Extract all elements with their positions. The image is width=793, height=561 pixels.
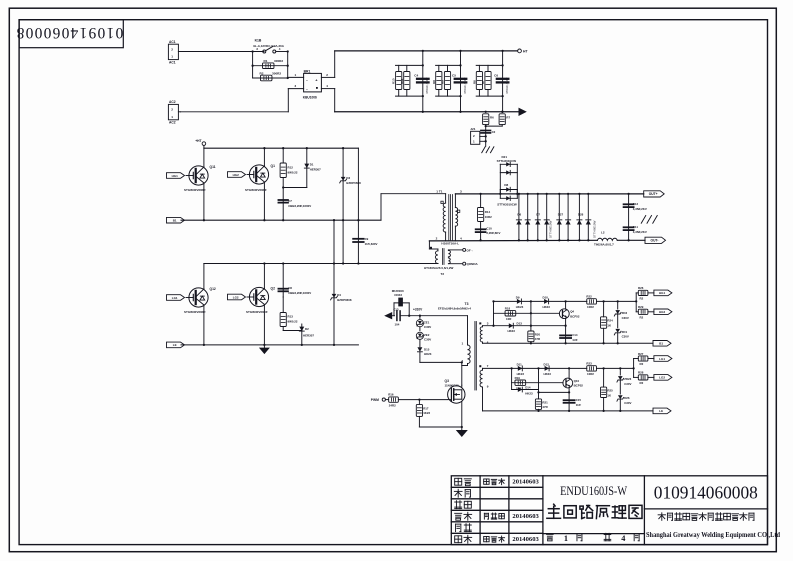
wire node to bridge pin1: [288, 76, 304, 78]
svg-text:AC1: AC1: [169, 60, 176, 64]
page row 第 1 页 共 4 页: [547, 533, 640, 543]
svg-text:C2: C2: [492, 130, 496, 134]
title 主回路原理图 (main circuit schematic): [547, 504, 642, 518]
junction ZD23 top: [619, 367, 621, 369]
junction D6b bottom: [527, 239, 529, 241]
svg-text:1U5,630V: 1U5,630V: [365, 242, 378, 246]
title row label audit 审核: [455, 512, 472, 520]
svg-text:20140603: 20140603: [512, 479, 539, 486]
svg-text:LG2: LG2: [659, 376, 665, 380]
wire R10 bottom stub: [398, 90, 400, 97]
wire right branch vertical: [287, 52, 289, 79]
svg-text:D27: D27: [558, 213, 564, 217]
junction R25 top: [602, 367, 604, 369]
svg-text:STTH6010W: STTH6010W: [549, 220, 553, 238]
svg-text:R19: R19: [515, 376, 521, 380]
svg-text:D11: D11: [517, 362, 523, 366]
junction return rail at RS2: [501, 111, 503, 113]
svg-text:R2: R2: [640, 381, 644, 385]
junction D4 rail: [333, 344, 335, 346]
zener ZD23 C30V: [617, 368, 632, 394]
resistor R7 bleeder: [481, 72, 491, 90]
junction +HT at C6: [501, 50, 503, 52]
svg-text:BZDP0608: BZDP0608: [337, 298, 352, 302]
svg-text:Q2: Q2: [271, 287, 276, 291]
junction R21 rail: [537, 410, 539, 412]
wire bridge top rail: [204, 147, 359, 149]
wire Q12 emitter: [203, 306, 205, 345]
svg-text:300R2: 300R2: [274, 59, 283, 63]
wire mid rail jog up: [380, 194, 382, 221]
wire mid rail to T1 pin1: [381, 193, 446, 195]
capacitor C12 3,3NF,2KV: [624, 194, 647, 240]
wire R10 top stub: [398, 65, 400, 71]
rectifier diode pair D6 STTH6010W: [516, 194, 530, 240]
svg-text:2: 2: [171, 108, 173, 112]
capacitor C7 CBB2,2NF,1600V: [278, 188, 311, 221]
wire C5 cluster top bus: [436, 64, 461, 66]
relay contact K1B 9L-A,12VDC,0.9A,30A: [253, 39, 285, 54]
junction node K1B right: [287, 50, 289, 52]
junction gate node: [418, 398, 420, 400]
wire R14 top stub: [480, 194, 482, 208]
junction Q12 emitter rail: [203, 344, 205, 346]
title row label standard 标化: [456, 524, 472, 532]
svg-text:20140603: 20140603: [512, 536, 539, 543]
svg-text:AC2: AC2: [169, 121, 176, 125]
junction C11 bottom: [627, 239, 629, 241]
svg-text:C30V: C30V: [624, 401, 631, 405]
svg-text:470UF,450V: 470UF,450V: [505, 77, 509, 94]
svg-text:D6: D6: [517, 213, 521, 217]
junction C4 bottom bus: [422, 95, 424, 97]
junction D3 rail: [342, 219, 344, 221]
wire HG2 to Q1 gate: [247, 174, 250, 176]
svg-text:C14: C14: [572, 333, 578, 337]
svg-text:LE: LE: [173, 343, 177, 347]
svg-text:BCP52: BCP52: [570, 314, 580, 318]
junction D2 rail: [301, 344, 303, 346]
wire AC1 to relay contact: [181, 51, 265, 53]
wire C6 vertical: [502, 51, 504, 112]
resistor R19 10R: [515, 376, 526, 390]
junction return at C4: [422, 111, 424, 113]
connector LE (lower emitter): [167, 342, 185, 348]
wire Q2 collector: [263, 264, 265, 289]
svg-text:HER307: HER307: [303, 334, 314, 338]
svg-text:R23: R23: [586, 362, 592, 366]
name Liu Jizhou 刘纪周: [484, 513, 504, 519]
wire Q3 drain: [461, 385, 463, 387]
resistor R20 47R: [528, 331, 541, 342]
capacitor C8 CBB2,2NF,1600V: [278, 264, 311, 298]
junction LG branch: [632, 367, 634, 369]
resistor R16 24R2: [388, 393, 398, 408]
diode D15 HK23: [417, 347, 431, 362]
IGBT Q11 STGW30V60DF: [184, 165, 216, 192]
capacitor C9 1U5,630V: [353, 148, 377, 263]
wire output bottom to OUT-: [617, 239, 645, 241]
company 上海广为焊接电源有限公司: [658, 513, 754, 521]
svg-text:3,3NF,2KV: 3,3NF,2KV: [633, 230, 647, 234]
title block outline: [451, 476, 767, 545]
svg-text:STTH6010W: STTH6010W: [593, 220, 597, 238]
junction J21 pin1: [485, 135, 487, 137]
svg-text:T6026A,60/1,7: T6026A,60/1,7: [594, 243, 614, 247]
svg-text:4: 4: [460, 236, 462, 240]
resistor R8 bleeder: [432, 72, 442, 90]
svg-text:1UF: 1UF: [576, 403, 582, 407]
resistor R28: [638, 371, 648, 385]
svg-text:HG2: HG2: [659, 310, 666, 314]
junction +HT at C5: [459, 50, 461, 52]
svg-text:+310V: +310V: [413, 308, 423, 312]
wire R20 bottom: [530, 342, 532, 344]
connector HG1 (output): [654, 290, 672, 296]
title row label proof 校对: [455, 501, 472, 509]
svg-text:D1: D1: [310, 163, 314, 167]
junction R24 rail: [602, 342, 604, 344]
junction C6 top bus: [501, 64, 503, 66]
svg-text:2: 2: [171, 47, 173, 51]
wire AC2 run: [181, 111, 289, 113]
junction lower rail C8: [282, 262, 284, 264]
wire ch1 riser: [493, 301, 495, 325]
svg-text:C5: C5: [452, 74, 456, 78]
wire ch1 top row: [494, 300, 587, 302]
junction top rail Q1: [263, 147, 265, 149]
svg-text:9W0.22: 9W0.22: [288, 319, 298, 323]
resistor R17 1K22: [416, 400, 430, 417]
dual diode D8 STTH3010CW: [497, 183, 517, 207]
junction ZD1 rail: [617, 342, 619, 344]
svg-text:MUR160: MUR160: [392, 289, 404, 293]
junction C5 bottom bus: [459, 95, 461, 97]
junction R25 rail: [602, 410, 604, 412]
node +HT (bridge supply): [195, 139, 206, 148]
svg-text:10R2: 10R2: [485, 215, 492, 219]
svg-text:R20: R20: [535, 332, 541, 336]
wire R7 top stub: [487, 65, 489, 71]
wire pin3 row: [483, 325, 566, 327]
wire PWM to R16: [385, 399, 388, 401]
svg-text:HK23: HK23: [424, 352, 432, 356]
capacitor C14 1UF: [560, 326, 578, 344]
svg-text:Q10: Q10: [574, 379, 580, 383]
electrolytic capacitor C4 470UF,450V: [414, 74, 429, 95]
wire R12 bottom: [282, 178, 284, 188]
svg-text:STTH3010CW: STTH3010CW: [497, 203, 517, 207]
svg-text:LE: LE: [659, 409, 663, 413]
junction ZD3 top: [617, 300, 619, 302]
junction C5 top bus: [459, 64, 461, 66]
junction T3 primary bottom: [461, 361, 463, 363]
svg-text:OF→: OF→: [467, 249, 474, 253]
wire mid link 2: [342, 220, 344, 263]
connector LG1 (lower gate 1): [167, 295, 185, 301]
junction Q2 emitter rail: [263, 344, 265, 346]
junction D7b top: [546, 193, 548, 195]
wire mid link 1: [333, 220, 335, 263]
junction top rail D3: [342, 147, 344, 149]
inductor L2 T6026A,60/1,7: [594, 230, 617, 246]
wire T2 feed drop: [428, 241, 430, 249]
svg-text:D7: D7: [536, 213, 540, 217]
wire R6 top stub: [478, 65, 480, 71]
diode D2 HER307: [299, 324, 314, 345]
wire AC2 riser to bridge pin3: [287, 89, 289, 112]
svg-text:010914060008: 010914060008: [15, 24, 123, 41]
svg-text:R10: R10: [392, 78, 396, 84]
svg-text:CD23: CD23: [394, 293, 402, 297]
svg-text:R2: R2: [640, 316, 644, 320]
connector LG1 (output): [654, 356, 672, 362]
chassis ground (output): [641, 216, 657, 224]
wire clamp bottom: [420, 361, 462, 363]
svg-text:D26: D26: [624, 396, 630, 400]
capacitor C11 3,3NF,2KV: [624, 225, 647, 234]
wire +310V to T3: [420, 315, 468, 317]
svg-text:2: 2: [436, 236, 438, 240]
svg-text:T2: T2: [441, 272, 445, 276]
wire R8 top stub: [438, 65, 440, 71]
svg-text:C6: C6: [494, 74, 498, 78]
connector LE (output): [653, 408, 671, 414]
junction C9 lower rail: [357, 262, 359, 264]
electrolytic capacitor C6 470UF,450V: [494, 74, 509, 95]
svg-text:1: 1: [564, 534, 568, 543]
wire RS1 down: [485, 125, 487, 147]
diode D11 HK23: [517, 362, 525, 376]
svg-text:11N90C20: 11N90C20: [445, 384, 460, 388]
svg-text:BR1: BR1: [304, 69, 311, 73]
zener ZE2 C30V: [416, 332, 431, 347]
junction pin3 node: [492, 325, 494, 327]
junction R1 right: [287, 65, 289, 67]
svg-text:010914060008: 010914060008: [654, 482, 758, 502]
wire R2 row: [253, 77, 288, 79]
svg-text:R17: R17: [423, 406, 429, 410]
svg-text:AC1: AC1: [169, 40, 176, 44]
transformer T1 H160716A-L: [436, 190, 462, 246]
junction C4 top bus: [422, 64, 424, 66]
title row label draw 绘制: [454, 489, 470, 497]
title row label approve 批准: [455, 535, 472, 543]
junction R18 mid: [530, 312, 532, 314]
wire C6 cluster top bus: [476, 64, 502, 66]
svg-text:PWM: PWM: [371, 398, 379, 402]
svg-text:C15: C15: [576, 398, 582, 402]
svg-text:BZDP0608: BZDP0608: [346, 181, 361, 185]
wire ch2 emitter row: [539, 391, 570, 393]
junction C7 rail: [282, 219, 284, 221]
svg-text:47R: 47R: [542, 405, 548, 409]
wire lower mid rail: [204, 263, 438, 265]
svg-text:D8: D8: [504, 183, 508, 187]
junction D stack left rail: [499, 193, 501, 195]
wire Q12 collector: [203, 264, 205, 290]
wire ch1 mid vertical: [530, 301, 532, 331]
svg-text:C30V: C30V: [624, 382, 631, 386]
resistor RS1: [483, 114, 494, 125]
connector LG2 (output): [654, 375, 672, 381]
transformer T3 EF25d,N84,9x9x5/N92+4: [438, 302, 489, 411]
svg-text:10R: 10R: [506, 317, 512, 321]
svg-text:R6: R6: [490, 116, 494, 120]
junction Q11 emitter rail: [203, 219, 205, 221]
resistor R22 10R2: [586, 295, 596, 310]
svg-text:ZD1: ZD1: [622, 330, 628, 334]
svg-text:ZD3: ZD3: [622, 311, 628, 315]
capacitor C2: [481, 130, 496, 134]
wire Q11 emitter: [203, 184, 205, 220]
wire R12-D1 join: [283, 187, 307, 189]
junction C6 bottom bus: [501, 95, 503, 97]
resistor R29: [638, 305, 648, 319]
svg-text:3,3NF,2KV: 3,3NF,2KV: [633, 207, 647, 211]
junction ch2 mid: [537, 367, 539, 369]
svg-text:D15: D15: [424, 347, 430, 351]
resistor RS2: [499, 114, 510, 125]
junction link2 bottom: [342, 262, 344, 264]
wire LG2 branch stub: [634, 376, 639, 378]
wire C5 vertical: [460, 51, 462, 112]
junction link1 top: [333, 219, 335, 221]
junction C12 top: [627, 193, 629, 195]
svg-text:R6: R6: [472, 80, 476, 84]
wire R21 bottom: [538, 409, 540, 411]
junction return rail at RS1: [485, 111, 487, 113]
connector HG1 (upper gate 1): [167, 173, 185, 179]
resistor R25 1K: [601, 368, 614, 411]
svg-text:H160716A-L: H160716A-L: [441, 242, 459, 246]
wire HG1 to Q11 gate: [186, 175, 189, 177]
junction C10 bottom: [479, 239, 481, 241]
svg-text:ZE2: ZE2: [424, 333, 430, 337]
resistor R23 10R2: [586, 362, 596, 377]
junction node K1B left: [251, 50, 253, 52]
wire left branch vertical: [252, 52, 254, 79]
chassis ground (soft start): [482, 147, 494, 153]
svg-text:D28: D28: [578, 213, 584, 217]
svg-text:HK23: HK23: [516, 305, 524, 309]
svg-text:C30V: C30V: [424, 338, 431, 342]
svg-text:C30V: C30V: [424, 325, 431, 329]
wire into bridge pin3: [288, 88, 303, 90]
junction J21 pin2: [485, 140, 487, 142]
connector HG2 (output): [654, 309, 672, 315]
svg-text:KBU1006: KBU1006: [303, 96, 317, 100]
wire Q3 source: [461, 402, 463, 431]
svg-text:R8: R8: [432, 80, 436, 84]
svg-text:+HT: +HT: [195, 139, 201, 143]
wire R16 to gate: [398, 399, 447, 401]
junction D23 right: [408, 315, 410, 317]
wire R13 to D2: [283, 330, 302, 332]
svg-text:47R: 47R: [535, 337, 541, 341]
junction D6a bottom: [518, 239, 520, 241]
svg-text:OUT-: OUT-: [651, 239, 659, 243]
svg-text:R25: R25: [607, 389, 613, 393]
junction D7a top: [537, 193, 539, 195]
svg-text:1: 1: [171, 55, 173, 59]
resistor R14 10R2: [478, 208, 493, 222]
svg-text:OUT+: OUT+: [649, 192, 658, 196]
wire ch2 drive row: [597, 367, 634, 369]
svg-text:R9: R9: [441, 80, 445, 84]
capacitor C15 1UF: [564, 392, 582, 411]
diode D1 HER307: [304, 148, 321, 187]
wire contact to node: [276, 51, 288, 53]
junction D7a bottom: [537, 239, 539, 241]
junction C14 rail: [564, 342, 566, 344]
wire R9 bottom stub: [447, 90, 449, 97]
svg-text:R21: R21: [542, 400, 548, 404]
junction D28a top: [578, 193, 580, 195]
svg-text:HK23: HK23: [525, 392, 533, 396]
transistor Q10 BCP52: [563, 368, 583, 392]
junction Q2 collector rail: [263, 262, 265, 264]
svg-text:C30V: C30V: [622, 335, 629, 339]
connector B1 (upper emitter): [167, 217, 185, 223]
wire R6 bottom stub: [478, 90, 480, 97]
svg-text:R22: R22: [586, 295, 592, 299]
svg-text:STGW30V60DF: STGW30V60DF: [184, 310, 206, 314]
svg-text:R2: R2: [640, 297, 644, 301]
svg-text:R12: R12: [288, 166, 294, 170]
junction snubber mid: [282, 186, 284, 188]
wire C6 cluster bottom bus: [476, 95, 502, 97]
junction D stack right rail: [516, 193, 518, 195]
connector PWM: [371, 398, 386, 402]
svg-text:STGW30V60DF: STGW30V60DF: [245, 188, 267, 192]
svg-text:R16: R16: [388, 393, 394, 397]
junction source gnd: [461, 426, 463, 428]
svg-text:HT160SA26 0,6/1,2W: HT160SA26 0,6/1,2W: [424, 266, 454, 270]
svg-text:4: 4: [621, 534, 625, 543]
svg-text:K1B: K1B: [255, 39, 262, 43]
svg-text:Q11: Q11: [210, 165, 216, 169]
svg-text:AC2: AC2: [169, 100, 176, 104]
svg-text:C9: C9: [365, 237, 369, 241]
IGBT Q1 STGW30V60DF: [245, 164, 275, 192]
resistor R24 1K: [601, 301, 614, 343]
junction ch1 top left: [492, 300, 494, 302]
wire HG2 branch down: [635, 301, 637, 311]
zener ZD3 C30V: [614, 301, 629, 327]
junction R24 top: [602, 300, 604, 302]
connector J21: [470, 127, 485, 144]
svg-text:D9: D9: [516, 295, 520, 299]
svg-text:B1: B1: [659, 342, 663, 346]
svg-text:Q4: Q4: [570, 310, 574, 314]
svg-text:R26: R26: [638, 286, 644, 290]
svg-text:R14: R14: [485, 210, 491, 214]
capacitor C13 104: [393, 307, 420, 326]
junction HG branch: [635, 300, 637, 302]
svg-text:C10: C10: [486, 226, 492, 230]
bridge rectifier BR1 KBU1006: [303, 69, 322, 99]
svg-text:C30V: C30V: [622, 316, 629, 320]
junction D27b bottom: [567, 239, 569, 241]
svg-text:Shanghai Greatway Welding Equi: Shanghai Greatway Welding Equipment CO.,…: [646, 531, 780, 539]
svg-text:R28: R28: [638, 371, 644, 375]
connector B1 (output): [653, 341, 671, 347]
svg-text:2,2NF,6KV: 2,2NF,6KV: [486, 231, 500, 235]
wire R29 to HG2: [648, 311, 654, 313]
junction ch1 top mid: [530, 300, 532, 302]
diode D12 HK23: [544, 362, 552, 376]
